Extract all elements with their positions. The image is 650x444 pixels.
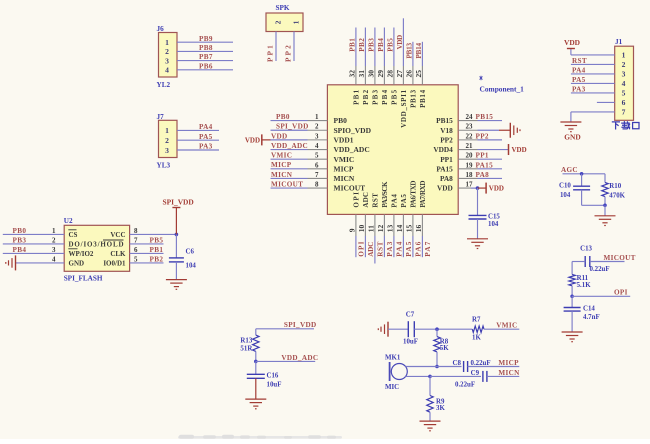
svg-text:2: 2: [52, 237, 56, 245]
svg-text:VMIC: VMIC: [496, 322, 517, 330]
svg-text:VDD: VDD: [271, 132, 288, 140]
svg-text:C6: C6: [186, 248, 195, 255]
svg-text:C16: C16: [267, 373, 279, 380]
svg-text:MICP: MICP: [271, 161, 292, 169]
svg-text:WP/IO2: WP/IO2: [69, 250, 94, 258]
svg-text:PB4: PB4: [377, 38, 385, 52]
svg-text:PA15: PA15: [476, 161, 494, 169]
svg-text:VCC: VCC: [110, 231, 125, 239]
svg-text:10uF: 10uF: [403, 339, 418, 346]
svg-text:PB0: PB0: [13, 227, 27, 235]
svg-text:PB2: PB2: [362, 89, 370, 105]
svg-text:5: 5: [315, 152, 319, 160]
svg-text:3K: 3K: [436, 405, 445, 412]
svg-text:PB5: PB5: [386, 38, 394, 52]
svg-text:104: 104: [488, 221, 499, 228]
svg-text:30: 30: [367, 70, 376, 78]
svg-text:C13: C13: [580, 245, 592, 252]
svg-text:PB8: PB8: [199, 44, 213, 52]
svg-text:VDD: VDD: [564, 38, 580, 47]
svg-text:C15: C15: [488, 214, 500, 221]
svg-text:PP2: PP2: [476, 132, 489, 140]
svg-text:PB0: PB0: [276, 113, 290, 121]
svg-text:7: 7: [622, 108, 626, 117]
svg-text:2: 2: [274, 20, 283, 24]
svg-text:VDD1: VDD1: [334, 135, 354, 144]
svg-text:PA3: PA3: [572, 86, 586, 94]
svg-text:3: 3: [165, 56, 169, 65]
svg-text:GND: GND: [69, 260, 85, 268]
svg-text:VDD4: VDD4: [433, 145, 453, 154]
svg-text:PA5: PA5: [199, 133, 213, 141]
svg-text:5.1K: 5.1K: [577, 282, 592, 289]
svg-text:2: 2: [315, 123, 319, 131]
svg-text:ADC: ADC: [362, 192, 370, 208]
svg-text:104: 104: [186, 262, 197, 269]
svg-text:ADC: ADC: [367, 241, 375, 257]
svg-text:PB3: PB3: [372, 89, 380, 105]
svg-text:VMIC: VMIC: [271, 152, 292, 160]
svg-text:C9: C9: [471, 370, 480, 377]
svg-text:J1: J1: [615, 38, 623, 46]
svg-text:GND: GND: [564, 133, 580, 142]
svg-text:8: 8: [315, 181, 319, 189]
svg-text:PB15: PB15: [436, 116, 453, 125]
svg-text:10: 10: [357, 224, 366, 232]
svg-text:MICOUT: MICOUT: [604, 254, 636, 262]
svg-text:PA3: PA3: [199, 143, 213, 151]
svg-text:YL3: YL3: [157, 161, 171, 169]
svg-text:PB3: PB3: [367, 38, 375, 52]
svg-text:PP1: PP1: [476, 152, 489, 160]
svg-text:PB5: PB5: [150, 237, 164, 245]
svg-text:51R: 51R: [240, 345, 253, 352]
svg-text:VDD_SPI1: VDD_SPI1: [400, 89, 408, 128]
svg-text:0.22uF: 0.22uF: [455, 381, 475, 388]
svg-text:RST: RST: [372, 193, 380, 208]
svg-text:5K: 5K: [440, 345, 449, 352]
svg-text:11: 11: [367, 225, 376, 232]
svg-text:6: 6: [622, 98, 626, 107]
svg-text:SPI_VDD: SPI_VDD: [284, 321, 317, 329]
svg-text:6: 6: [315, 161, 319, 169]
svg-text:R10: R10: [609, 183, 621, 190]
svg-text:PB2: PB2: [358, 38, 366, 52]
svg-text:PA6: PA6: [415, 241, 423, 257]
svg-text:2: 2: [165, 136, 169, 145]
svg-text:5: 5: [622, 89, 626, 98]
svg-text:PA5: PA5: [572, 76, 586, 84]
svg-text:PB3: PB3: [13, 236, 27, 244]
svg-text:C14: C14: [583, 306, 595, 313]
svg-text:10uF: 10uF: [267, 382, 282, 389]
svg-text:9: 9: [348, 228, 357, 232]
svg-text:CLK: CLK: [110, 250, 126, 258]
svg-text:VDD_ADC: VDD_ADC: [271, 142, 308, 150]
svg-text:VDD: VDD: [512, 146, 527, 154]
svg-text:PA7: PA7: [424, 241, 432, 257]
svg-text:C8: C8: [453, 360, 462, 367]
svg-text:PB9: PB9: [199, 35, 213, 43]
svg-text:PA8: PA8: [476, 171, 490, 179]
svg-text:1: 1: [52, 227, 56, 235]
svg-text:3: 3: [315, 132, 319, 140]
svg-text:PA5: PA5: [405, 241, 413, 257]
svg-text:2: 2: [622, 60, 626, 69]
svg-text:VDD: VDD: [489, 184, 504, 192]
svg-text:PA8: PA8: [440, 174, 453, 183]
svg-text:MICN: MICN: [498, 369, 520, 377]
svg-text:MICP: MICP: [334, 164, 354, 173]
svg-text:R7: R7: [472, 316, 481, 323]
svg-text:PB1: PB1: [150, 246, 164, 254]
svg-text:27: 27: [395, 70, 404, 78]
svg-text:18: 18: [466, 171, 474, 179]
svg-text:PA4: PA4: [396, 241, 404, 257]
svg-text:PB0: PB0: [334, 116, 348, 125]
svg-text:PB1: PB1: [353, 89, 361, 105]
svg-text:SPK: SPK: [276, 4, 290, 12]
svg-text:1: 1: [622, 51, 626, 60]
svg-text:OPI: OPI: [358, 241, 366, 257]
svg-text:21: 21: [466, 142, 474, 150]
svg-text:U2: U2: [64, 217, 73, 225]
svg-text:MICOUT: MICOUT: [271, 180, 303, 188]
svg-text:25: 25: [414, 70, 423, 78]
svg-text:2: 2: [165, 47, 169, 56]
svg-text:12: 12: [376, 224, 385, 232]
svg-text:23: 23: [466, 123, 474, 131]
svg-text:VDD_ADC: VDD_ADC: [281, 354, 318, 362]
svg-text:1: 1: [165, 38, 169, 47]
svg-text:J6: J6: [157, 25, 165, 33]
svg-text:13: 13: [386, 224, 395, 232]
svg-text:PB14: PB14: [419, 89, 427, 108]
svg-text:R13: R13: [240, 337, 252, 344]
svg-text:PB13: PB13: [410, 89, 418, 108]
svg-text:24: 24: [466, 113, 474, 121]
svg-text:V18: V18: [440, 126, 453, 135]
svg-text:17: 17: [466, 181, 474, 189]
svg-text:1K: 1K: [472, 335, 481, 342]
svg-text:0.22uF: 0.22uF: [590, 266, 610, 273]
svg-text:Component_1: Component_1: [480, 84, 525, 93]
svg-text:PB5: PB5: [391, 89, 399, 105]
svg-text:PP1: PP1: [440, 155, 453, 164]
svg-text:CS: CS: [69, 231, 78, 239]
svg-text:VDD: VDD: [245, 136, 260, 144]
svg-text:22: 22: [466, 132, 474, 140]
svg-text:OPI: OPI: [353, 192, 361, 208]
svg-text:PA3: PA3: [386, 241, 394, 257]
svg-text:PP2: PP2: [440, 135, 453, 144]
svg-text:VMIC: VMIC: [334, 155, 355, 164]
svg-text:4.7nF: 4.7nF: [583, 314, 600, 321]
svg-text:PB15: PB15: [476, 113, 494, 121]
svg-text:4: 4: [622, 79, 626, 88]
svg-text:PA6/TXD: PA6/TXD: [410, 181, 418, 208]
svg-text:MICN: MICN: [334, 174, 355, 183]
svg-text:PA4: PA4: [199, 123, 213, 131]
svg-text:C10: C10: [559, 183, 571, 190]
svg-text:PB6: PB6: [199, 62, 213, 70]
svg-text:470K: 470K: [609, 192, 625, 199]
svg-text:4: 4: [165, 66, 169, 75]
svg-text:J7: J7: [157, 113, 165, 121]
svg-text:PA4: PA4: [572, 67, 586, 75]
svg-text:SPI_VDD: SPI_VDD: [276, 123, 309, 131]
svg-text:PB2: PB2: [150, 256, 164, 264]
svg-text:28: 28: [386, 70, 395, 78]
svg-text:PA4: PA4: [391, 194, 399, 208]
svg-text:SPIO_VDD: SPIO_VDD: [334, 126, 372, 135]
svg-text:IO0/D1: IO0/D1: [103, 260, 126, 268]
svg-text:1: 1: [165, 126, 169, 135]
svg-text:PB1: PB1: [348, 38, 356, 52]
svg-text:PA7/RXD: PA7/RXD: [419, 181, 427, 208]
svg-text:VDD: VDD: [437, 184, 453, 193]
svg-text:VDD: VDD: [396, 35, 404, 50]
svg-text:MIC: MIC: [385, 384, 399, 391]
svg-text:SPI_VDD: SPI_VDD: [163, 198, 194, 207]
svg-text:1: 1: [315, 113, 319, 121]
svg-text:14: 14: [395, 224, 404, 232]
svg-text:PA3/SCK: PA3/SCK: [381, 181, 389, 208]
svg-text:26: 26: [405, 70, 414, 78]
svg-text:4: 4: [315, 142, 319, 150]
svg-text:OPI: OPI: [614, 289, 628, 297]
svg-text:104: 104: [560, 192, 571, 199]
svg-text:15: 15: [405, 224, 414, 232]
svg-text:32: 32: [348, 70, 357, 78]
svg-text:MK1: MK1: [385, 354, 401, 361]
svg-text:3: 3: [622, 70, 626, 79]
svg-text:AGC: AGC: [561, 166, 578, 174]
svg-text:PP1: PP1: [267, 45, 275, 62]
svg-text:PA5: PA5: [400, 194, 408, 208]
svg-text:PB4: PB4: [13, 246, 27, 254]
svg-text:PP2: PP2: [285, 45, 293, 62]
svg-text:YL2: YL2: [157, 81, 171, 89]
svg-text:29: 29: [376, 70, 385, 78]
svg-text:PB7: PB7: [199, 53, 213, 61]
svg-text:DO/IO3/HOLD: DO/IO3/HOLD: [69, 241, 124, 249]
svg-text:RST: RST: [377, 241, 385, 257]
svg-text:RST: RST: [572, 57, 587, 65]
svg-text:C7: C7: [406, 312, 415, 319]
svg-text:PB14: PB14: [415, 43, 423, 59]
svg-text:19: 19: [466, 161, 474, 169]
svg-text:R11: R11: [577, 275, 589, 282]
svg-text:0.22uF: 0.22uF: [471, 360, 491, 367]
svg-text:PB4: PB4: [381, 89, 389, 105]
svg-text:1: 1: [292, 20, 301, 24]
svg-text:20: 20: [466, 152, 474, 160]
svg-text:MICOUT: MICOUT: [334, 184, 366, 193]
svg-text:31: 31: [357, 70, 366, 78]
svg-text:PB13: PB13: [405, 43, 413, 59]
svg-text:MICN: MICN: [271, 171, 293, 179]
svg-text:7: 7: [315, 171, 319, 179]
svg-text:MICP: MICP: [498, 359, 519, 367]
svg-text:3: 3: [165, 146, 169, 155]
svg-text:PA15: PA15: [436, 164, 453, 173]
svg-text:VDD_ADC: VDD_ADC: [334, 145, 370, 154]
svg-text:16: 16: [414, 224, 423, 232]
svg-text:3: 3: [52, 246, 56, 254]
svg-text:SPI_FLASH: SPI_FLASH: [64, 275, 103, 283]
